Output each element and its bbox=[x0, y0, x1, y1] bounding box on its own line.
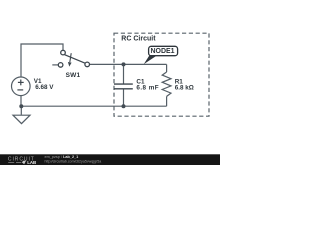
svg-text:6.68 V: 6.68 V bbox=[35, 84, 54, 91]
svg-text:NODE1: NODE1 bbox=[150, 48, 174, 55]
svg-text:LAB: LAB bbox=[27, 160, 36, 165]
svg-text:6.8 kΩ: 6.8 kΩ bbox=[175, 84, 194, 91]
svg-text:http:⁄⁄circuitlab.com⁄c62ya5vw: http:⁄⁄circuitlab.com⁄c62ya5vwqjgr5a bbox=[45, 159, 102, 163]
svg-text:SW1: SW1 bbox=[66, 72, 81, 79]
svg-text:RC Circuit: RC Circuit bbox=[121, 35, 156, 42]
svg-text:6.8 mF: 6.8 mF bbox=[136, 84, 159, 91]
